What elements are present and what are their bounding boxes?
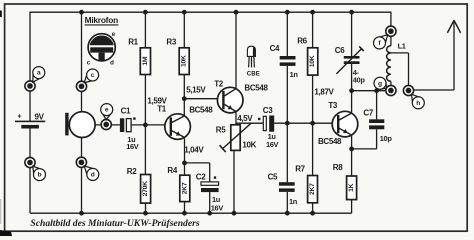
svg-text:4,5V: 4,5V: [237, 114, 253, 123]
wire T2 emitter: [235, 111, 237, 125]
Mikrofon legend capsule pinout symbol: [88, 34, 115, 61]
node a balloon label: [33, 67, 45, 83]
svg-text:T1: T1: [157, 105, 167, 114]
node d balloon label: [84, 166, 99, 181]
inductor L1 coil: [387, 46, 391, 82]
wire R7 bottom: [312, 203, 314, 213]
junction top bus / R3: [182, 10, 187, 15]
wire antenna tap: [391, 53, 409, 86]
trimmer capacitor C6 arrow: [336, 46, 363, 74]
svg-text:2K7: 2K7: [181, 182, 188, 194]
wire f to L1: [390, 36, 392, 46]
svg-text:1K: 1K: [348, 183, 355, 191]
antenna arrowhead: [447, 20, 460, 33]
label R4: [167, 166, 177, 175]
wire emitter to C2: [185, 163, 210, 182]
label T2: [214, 80, 224, 89]
capacitor C1 plate solid: [120, 118, 124, 132]
wire mic output: [95, 124, 120, 126]
svg-text:R3: R3: [166, 38, 176, 47]
resistor R2: [141, 175, 151, 204]
label R8: [333, 163, 343, 172]
transistor package TO-92 legend: [247, 46, 255, 67]
resistor R7: [308, 176, 318, 203]
svg-text:1n: 1n: [289, 197, 298, 206]
svg-text:R1: R1: [128, 38, 138, 47]
svg-text:CBE: CBE: [247, 70, 260, 77]
svg-text:b: b: [37, 172, 41, 179]
wire C7 top: [376, 91, 378, 120]
svg-text:R4: R4: [167, 166, 177, 175]
resistor R6: [308, 48, 318, 75]
wire R3 bottom to T2 base node: [183, 75, 185, 99]
wire mic branch lower: [81, 138, 83, 214]
svg-text:R5: R5: [216, 126, 226, 135]
wire C2 bottom: [209, 192, 211, 213]
label R6: [297, 37, 307, 46]
svg-text:g: g: [378, 80, 382, 87]
node e balloon label: [101, 104, 113, 120]
label C7: [363, 108, 373, 117]
svg-text:C1: C1: [121, 106, 131, 115]
svg-text:1,04V: 1,04V: [184, 145, 204, 154]
node f balloon label: [374, 35, 388, 49]
resistor R8: [347, 176, 357, 200]
junction bottom bus / R5: [232, 211, 237, 216]
wire antenna feed: [413, 22, 454, 91]
junction T3 emitter / R8 / C7: [349, 147, 354, 152]
svg-text:16V: 16V: [266, 140, 279, 149]
svg-text:Mikrofon: Mikrofon: [85, 15, 118, 25]
svg-text:T3: T3: [328, 101, 338, 110]
label 5,15V: [186, 86, 206, 95]
svg-text:10p: 10p: [380, 134, 393, 143]
resistor R4: [180, 175, 190, 201]
capacitor C1 plate outline: [126, 119, 131, 132]
junction C1 / R1 / R2 base node: [143, 123, 148, 128]
node h balloon label: [412, 94, 425, 109]
wire bottom ground bus: [30, 212, 352, 214]
svg-text:e: e: [112, 31, 116, 38]
Mikrofon legend pin e label: [112, 31, 116, 38]
junction top bus / C6: [349, 10, 354, 15]
label C1 value 1u: [127, 135, 136, 144]
junction tank node / C6 / T3: [349, 88, 354, 93]
svg-text:c: c: [91, 72, 95, 79]
label R2: [127, 167, 137, 176]
label R5 value 10K: [242, 140, 256, 149]
svg-text:BC548: BC548: [244, 83, 268, 92]
node b balloon label: [33, 166, 46, 180]
wire left battery rail lower: [29, 128, 31, 213]
svg-text:R8: R8: [333, 163, 343, 172]
svg-text:BC548: BC548: [189, 105, 213, 114]
svg-text:d: d: [110, 60, 114, 67]
svg-text:40p: 40p: [353, 75, 366, 84]
node d terminal: [76, 157, 86, 167]
microphone MIC circle: [69, 112, 95, 138]
wire C4 top: [286, 12, 288, 56]
label L1: [398, 42, 406, 51]
svg-text:16V: 16V: [211, 203, 224, 212]
svg-text:c: c: [87, 60, 91, 67]
svg-text:Schaltbild des Miniatur-UKW-Pr: Schaltbild des Miniatur-UKW-Prüfsenders: [30, 218, 199, 229]
node g balloon label: [374, 77, 387, 89]
resistor R3: [179, 48, 189, 75]
node b terminal: [25, 157, 35, 167]
svg-text:C2: C2: [196, 173, 206, 182]
svg-text:C6: C6: [335, 46, 345, 55]
label R5: [216, 126, 226, 135]
capacitor C2 plate outline: [201, 182, 219, 185]
junction tank / C7 branch: [374, 88, 379, 93]
battery polarity + label: [18, 114, 22, 121]
junction bottom bus / R7: [310, 211, 315, 216]
label T3 type BC548: [318, 137, 342, 146]
svg-text:9V: 9V: [35, 113, 45, 122]
capacitor C2 plate solid: [201, 188, 219, 192]
svg-text:R2: R2: [127, 167, 137, 176]
wire mic branch upper: [81, 12, 83, 112]
wire C4 bottom / C5 top: [286, 66, 288, 182]
junction bottom bus / C5: [285, 211, 290, 216]
wire R3 top: [183, 12, 185, 48]
caption Schaltbild des Miniatur-UKW-Pruefsenders: [30, 218, 199, 229]
label C6 value 40p: [353, 75, 366, 84]
wire R2 bottom: [145, 203, 147, 213]
junction R3 / T1 collector / T2 base: [182, 96, 187, 101]
battery 9V positive plate: [15, 121, 45, 123]
wire R8 bottom: [351, 200, 353, 214]
junction top bus / R6: [310, 10, 315, 15]
svg-text:h: h: [416, 100, 420, 107]
label R1: [128, 38, 138, 47]
wire tank node to terminal g: [352, 90, 391, 92]
wire top bus corner to f: [390, 12, 392, 27]
label BC548 type legend: [244, 83, 268, 92]
svg-text:270K: 270K: [142, 181, 149, 196]
capacitor C1 polarity mark: [133, 117, 135, 119]
wire C7 bottom: [376, 129, 378, 149]
node c balloon label: [84, 69, 98, 83]
battery 9V negative plate: [21, 125, 39, 129]
capacitor C4: [280, 56, 296, 66]
resistor R1: [140, 48, 150, 75]
junction top bus / T2 collector: [234, 10, 239, 15]
transistor T1 BC548: [165, 114, 191, 140]
label 1,04V: [184, 145, 204, 154]
label C2 value 16V: [211, 203, 224, 212]
label C5 value 1n: [289, 197, 298, 206]
node a terminal: [25, 81, 35, 91]
label C6 value 4-: [353, 68, 360, 77]
label R7: [295, 164, 305, 173]
svg-text:2K7: 2K7: [309, 183, 316, 195]
transistor T3 BC548: [332, 111, 358, 137]
svg-text:10K: 10K: [181, 55, 188, 67]
rheostat R5 box: [231, 125, 240, 151]
wire R5 bottom: [233, 150, 235, 213]
node h terminal: [403, 85, 413, 95]
svg-text:C4: C4: [270, 44, 280, 53]
label C1: [121, 106, 131, 115]
junction bottom bus / C2: [207, 211, 212, 216]
node g terminal: [386, 85, 396, 95]
wire T1 emitter: [184, 138, 186, 175]
label C4: [270, 44, 280, 53]
label C5: [268, 172, 278, 181]
svg-text:1,87V: 1,87V: [314, 87, 334, 96]
capacitor C7: [369, 119, 384, 129]
capacitor C3 plate solid: [269, 116, 274, 132]
wire T2 base: [184, 98, 223, 100]
label 1,59V: [147, 96, 167, 105]
label C7 value 10p: [380, 134, 393, 143]
wire T1 collector: [183, 99, 185, 115]
wire L1 bottom to g: [390, 81, 392, 86]
wire R1 top: [144, 12, 146, 48]
label 4,5V: [237, 114, 253, 123]
label T1 type BC548: [189, 105, 213, 114]
label T1: [157, 105, 167, 114]
label C6: [335, 46, 345, 55]
wire R6 top: [312, 12, 314, 48]
capacitor C5: [279, 182, 295, 192]
wire T2 emitter to C3: [236, 122, 264, 124]
junction R6 / T3 base node: [310, 121, 315, 126]
wire T3 emitter: [351, 136, 353, 176]
wire R2 top: [144, 125, 146, 175]
label C3 value 16V: [266, 140, 279, 149]
node e terminal: [101, 119, 111, 129]
junction bottom bus / R2: [143, 211, 148, 216]
label C2: [196, 173, 206, 182]
label CBE pinout: [247, 70, 260, 77]
capacitor C3 plate outline: [263, 116, 266, 130]
svg-text:C7: C7: [363, 108, 373, 117]
wire base node T1: [131, 124, 171, 126]
svg-text:16V: 16V: [126, 142, 139, 151]
wire R6 bottom: [312, 75, 314, 176]
Mikrofon legend pin c label: [87, 60, 91, 67]
Mikrofon legend pin d label: [110, 60, 114, 67]
wire C6 top: [351, 12, 353, 56]
capacitor C2 polarity mark: [214, 176, 216, 178]
junction C4 / T3 base node: [285, 121, 290, 126]
wire T2 collector: [235, 12, 237, 89]
svg-text:5,15V: 5,15V: [186, 86, 206, 95]
svg-text:L1: L1: [398, 42, 406, 51]
capacitor C3 polarity mark: [258, 118, 260, 120]
label 1,87V: [314, 87, 334, 96]
svg-text:1M: 1M: [142, 56, 149, 65]
trimmer capacitor C6 plates: [344, 56, 360, 64]
label C3: [263, 106, 273, 115]
svg-text:a: a: [37, 70, 41, 77]
svg-text:T2: T2: [214, 80, 224, 89]
wire left battery rail upper: [29, 12, 31, 121]
wire R1 bottom to base node: [144, 75, 146, 126]
svg-text:d: d: [91, 172, 95, 179]
svg-text:1n: 1n: [290, 70, 299, 79]
label C4 value 1n: [290, 70, 299, 79]
svg-text:C5: C5: [268, 172, 278, 181]
junction bottom bus / R4: [182, 211, 187, 216]
microphone MIC element bar: [65, 113, 68, 136]
rheostat R5 arrow: [220, 123, 251, 152]
svg-text:10K: 10K: [242, 140, 256, 149]
node f terminal: [386, 26, 396, 36]
wire R4 bottom: [184, 202, 186, 214]
label R3: [166, 38, 176, 47]
battery value 9V label: [35, 113, 45, 122]
svg-text:BC548: BC548: [318, 137, 342, 146]
junction top bus / C4: [285, 10, 290, 15]
junction top bus / R1: [143, 10, 148, 15]
wire top supply bus: [30, 11, 391, 13]
svg-text:R7: R7: [295, 164, 305, 173]
node c terminal: [76, 81, 86, 91]
label T3: [328, 101, 338, 110]
svg-text:C3: C3: [263, 106, 273, 115]
junction bottom bus / mic branch: [79, 211, 84, 216]
junction top bus / mic branch: [79, 10, 84, 15]
wire C5 bottom: [286, 192, 288, 213]
wire T3 emitter to C7: [352, 148, 377, 150]
svg-text:10K: 10K: [309, 55, 316, 67]
svg-text:e: e: [105, 107, 109, 114]
transistor T2 BC548: [217, 87, 243, 113]
junction T1 emitter / R4 / C2: [182, 161, 187, 166]
wire C3 to T3 base: [274, 122, 335, 124]
svg-text:R6: R6: [297, 37, 307, 46]
label C2 value 1u: [212, 195, 221, 204]
svg-text:+: +: [18, 114, 22, 121]
Mikrofon legend title: [85, 15, 119, 25]
label C1 value 16V: [126, 142, 139, 151]
label C3 value 1u: [268, 132, 277, 141]
wire C6 bottom / T3 collector: [351, 64, 353, 112]
